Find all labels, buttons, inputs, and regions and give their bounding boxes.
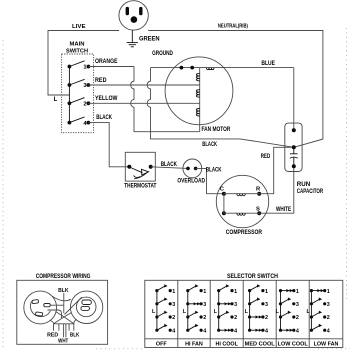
coil compressor run winding [237, 194, 245, 196]
wire RED [88, 84, 199, 86]
selector switch position MED COOL [245, 284, 268, 334]
wire overload to compressor C [196, 168, 224, 193]
svg-text:3: 3 [234, 302, 237, 308]
svg-text:BLACK: BLACK [202, 142, 217, 148]
node motor top junctions [180, 66, 184, 70]
svg-text:4: 4 [172, 328, 175, 334]
svg-text:1: 1 [172, 289, 175, 295]
selector switch position HI COOL [214, 284, 237, 334]
svg-text:SWITCH: SWITCH [66, 48, 88, 54]
svg-text:WHITE: WHITE [276, 207, 291, 213]
svg-text:1: 1 [327, 289, 330, 295]
svg-text:4: 4 [234, 328, 237, 334]
svg-text:BLK: BLK [58, 288, 68, 294]
svg-text:NEUTRAL(RIB): NEUTRAL(RIB) [218, 23, 248, 29]
selector switch position OFF [152, 284, 175, 334]
compressor U1 [216, 175, 268, 227]
svg-text:ORANGE: ORANGE [95, 59, 118, 65]
svg-text:GREEN: GREEN [139, 37, 160, 43]
wire YELLOW [88, 102, 199, 104]
selector switch grid [145, 280, 343, 347]
svg-text:1: 1 [296, 289, 299, 295]
svg-text:3: 3 [172, 302, 175, 308]
svg-text:LOW FAN: LOW FAN [314, 342, 339, 348]
wire R to capacitor / RED [259, 147, 294, 193]
svg-text:1: 1 [234, 289, 237, 295]
svg-text:3: 3 [296, 302, 299, 308]
wire ORANGE [88, 66, 134, 68]
svg-text:THERMOSTAT: THERMOSTAT [124, 183, 156, 189]
motor winding string (vertical) [199, 68, 201, 132]
svg-text:SELECTOR SWITCH: SELECTOR SWITCH [227, 274, 278, 280]
svg-text:FAN MOTOR: FAN MOTOR [202, 127, 231, 133]
svg-text:2: 2 [327, 315, 330, 321]
svg-text:OFF: OFF [156, 342, 167, 348]
svg-text:BLUE: BLUE [261, 61, 275, 67]
svg-text:RED: RED [261, 154, 271, 160]
coil motor tap 1 [196, 73, 199, 81]
svg-text:RED: RED [47, 332, 58, 338]
wire BLACK (switch to thermostat) [88, 123, 129, 167]
run capacitor C1 [285, 123, 302, 171]
svg-text:L: L [54, 97, 58, 103]
ground [127, 30, 138, 47]
svg-text:COMPRESSOR: COMPRESSOR [226, 230, 263, 236]
coil compressor start winding [237, 213, 245, 215]
svg-text:S: S [256, 207, 260, 213]
svg-text:LIVE: LIVE [72, 24, 86, 30]
coil motor tap 2 [196, 90, 199, 98]
svg-text:1: 1 [265, 289, 268, 295]
coil motor tap 3 [196, 109, 199, 117]
svg-text:LOW COOL: LOW COOL [278, 342, 309, 348]
thermostat TH [125, 152, 155, 181]
svg-text:2: 2 [172, 315, 175, 321]
svg-text:4: 4 [203, 328, 206, 334]
svg-text:YELLOW: YELLOW [95, 96, 118, 102]
svg-text:2: 2 [265, 315, 268, 321]
svg-text:MED COOL: MED COOL [245, 342, 276, 348]
svg-text:2: 2 [83, 102, 86, 108]
wire motor top line / BLUE [151, 67, 294, 69]
svg-text:OVERLOAD: OVERLOAD [177, 178, 205, 184]
coil motor main (horizontal) [207, 68, 215, 70]
right plug face [70, 291, 102, 323]
wire motor common / BLACK to capacitor [147, 68, 294, 148]
svg-text:HI COOL: HI COOL [215, 342, 238, 348]
svg-text:BLACK: BLACK [161, 162, 178, 168]
svg-text:WHT: WHT [58, 339, 69, 345]
svg-text:CAPACITOR: CAPACITOR [297, 189, 324, 195]
left plug face [24, 291, 57, 324]
svg-text:HI FAN: HI FAN [185, 342, 203, 348]
svg-text:RED: RED [95, 78, 107, 84]
selector switch position LOW COOL [276, 289, 299, 335]
selector switch position HI FAN [183, 284, 206, 334]
svg-text:BLK: BLK [70, 332, 79, 338]
switch contact dots [68, 65, 91, 125]
fan motor M1 [165, 57, 233, 125]
svg-text:4: 4 [296, 328, 299, 334]
svg-text:4: 4 [265, 328, 268, 334]
wire thermostat to overload [151, 167, 188, 169]
svg-text:2: 2 [203, 315, 206, 321]
svg-text:RUN: RUN [297, 182, 311, 188]
svg-text:BLACK: BLACK [96, 115, 112, 121]
switch blades (open) [69, 61, 84, 123]
overload OL [183, 159, 202, 178]
svg-text:MAIN: MAIN [70, 42, 85, 48]
selector switch position LOW FAN [307, 289, 330, 335]
wire LIVE [48, 31, 119, 96]
svg-text:2: 2 [296, 315, 299, 321]
svg-text:2: 2 [234, 315, 237, 321]
svg-text:1: 1 [203, 289, 206, 295]
wire S to capacitor / WHITE [259, 166, 294, 213]
power plug P1 [119, 1, 148, 30]
svg-text:BLACK: BLACK [206, 167, 222, 173]
harness wires [65, 297, 82, 314]
svg-text:GROUND: GROUND [152, 51, 173, 57]
wire NEUTRAL(RIB) [148, 31, 323, 148]
svg-text:3: 3 [327, 302, 330, 308]
svg-text:3: 3 [203, 302, 206, 308]
svg-text:COMPRESSOR WIRING: COMPRESSOR WIRING [36, 274, 91, 280]
svg-text:4: 4 [327, 328, 330, 334]
svg-text:3: 3 [265, 302, 268, 308]
main switch S1 [62, 42, 94, 133]
